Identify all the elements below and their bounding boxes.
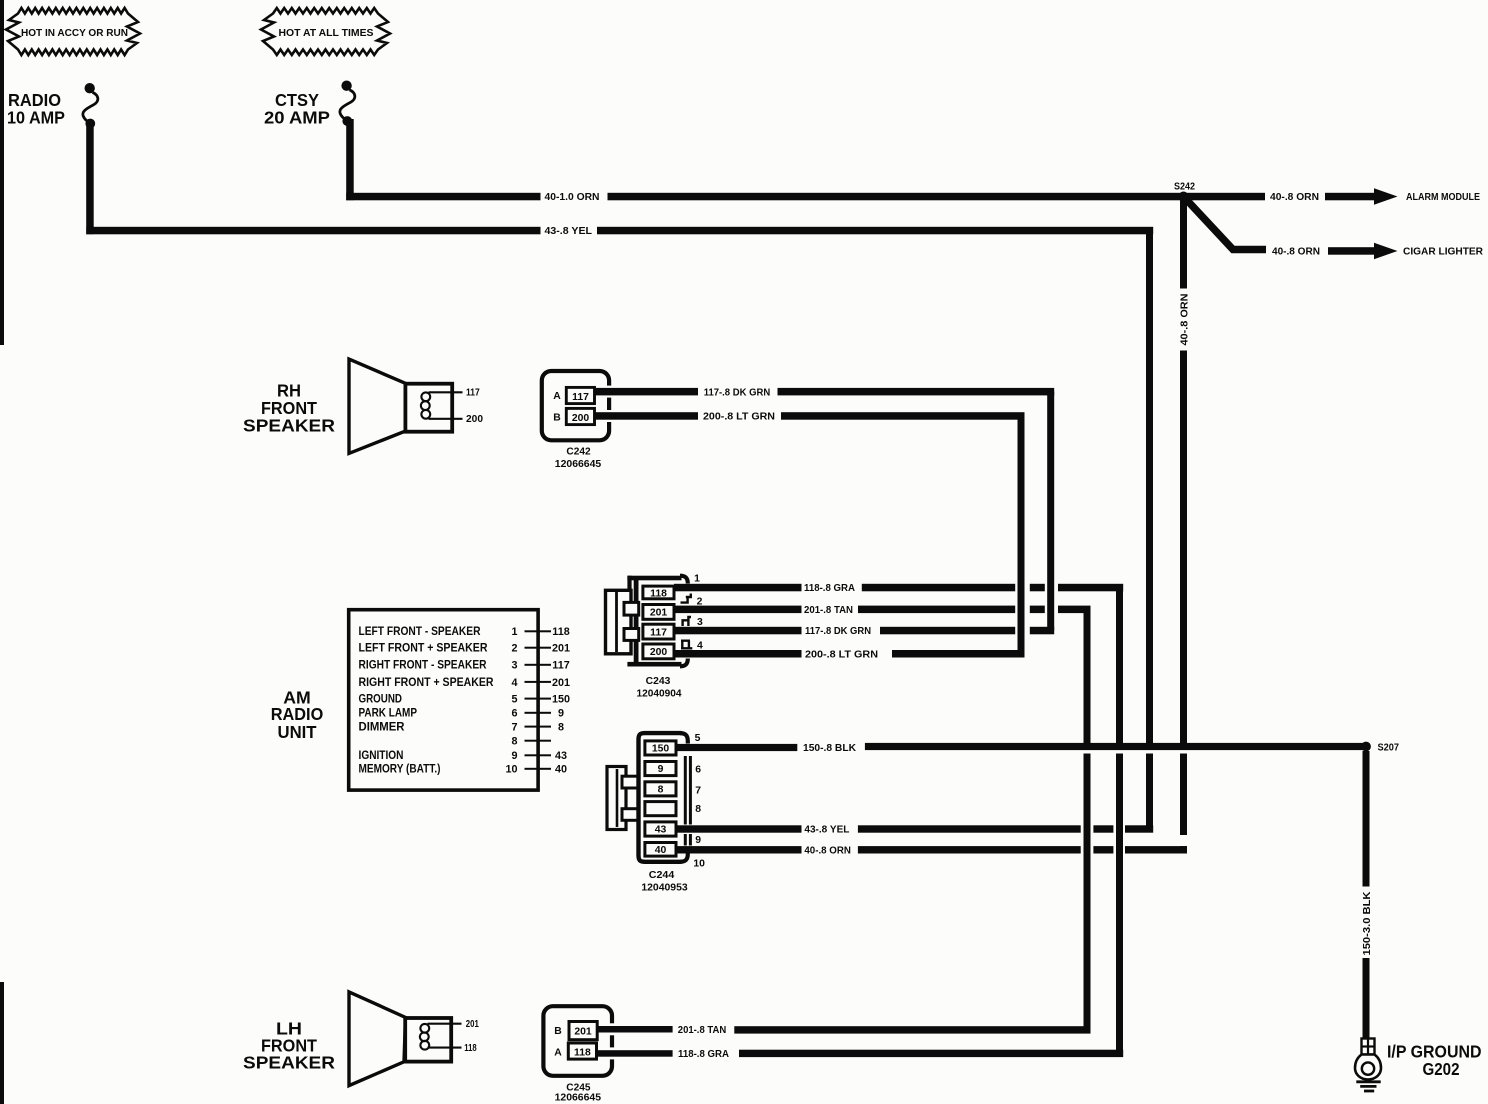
connector C244 pin 7 number [695,785,701,796]
svg-text:201-.8 TAN: 201-.8 TAN [804,605,853,616]
label C242 [566,446,590,457]
svg-text:6: 6 [511,708,517,720]
scan edge bar top-left [0,0,4,345]
label 43-.8 YEL top [545,226,593,237]
connector C244 cavity 43 [645,822,676,836]
svg-text:43-.8 YEL: 43-.8 YEL [804,825,850,836]
node S207 [1361,742,1399,754]
connector C243 housing [627,576,687,667]
connector C242 pin B cavity [566,408,594,424]
label 200-.8 LT GRN upper [703,412,775,423]
box AM radio unit [349,610,538,790]
svg-text:9: 9 [558,708,564,720]
svg-text:3: 3 [511,660,517,672]
AM radio pin 2 LEFT FRONT + SPEAKER [359,641,571,655]
wire 40 ORN bottom seg4 corner [1125,846,1187,853]
connector C245 pin A cavity [568,1043,596,1059]
wire 200-.8 LT GRN from C243 pin4 [674,650,802,658]
wire 201 TAN bottom seg2 [734,1026,1090,1033]
svg-text:150: 150 [552,694,570,706]
svg-text:7: 7 [511,722,517,734]
svg-text:43: 43 [555,750,567,762]
svg-text:C243: C243 [646,676,671,687]
label 40-.8 ORN alarm [1270,192,1319,203]
wire 200 LT GRN to corner [781,412,1025,420]
svg-text:3: 3 [697,617,703,628]
connector C243 pin 3 number [697,617,703,628]
AM radio pin 6 PARK LAMP [359,706,565,720]
wire 117 DK GRN to corner [778,388,1055,396]
label 117-.8 DK GRN upper [704,387,771,398]
connector C244 cavity blank [645,802,676,816]
label 118-.8 GRA [804,583,855,594]
label 40-.8 ORN rotated [1179,294,1190,346]
label 40-.8 ORN bottom [804,846,851,857]
svg-text:201: 201 [574,1027,592,1038]
wire 43-.8 YEL horizontal left segment [86,227,540,235]
connector C244 pin 9 number [695,835,701,846]
svg-text:10: 10 [693,858,705,869]
label 150-.8 BLK [803,743,856,754]
label 200-.8 LT GRN lower [805,650,878,661]
connector C244 cavity 8 [645,782,676,796]
speaker LH horn [349,992,406,1086]
svg-text:40-.8 ORN: 40-.8 ORN [1272,247,1320,258]
wire 40-.8 ORN from C244 pin10 [676,846,802,853]
svg-text:S242: S242 [1174,182,1195,193]
svg-text:150-3.0 BLK: 150-3.0 BLK [1362,892,1373,956]
wire 201 TAN seg4 corner [1058,606,1091,614]
svg-text:6: 6 [695,764,701,775]
wire 118 GRA vertical seg2 [1116,754,1123,1058]
connector C243 cavity 201 [643,605,674,620]
wire 201-.8 TAN from C243 pin2 [674,606,802,614]
arrow to CIGAR LIGHTER [1328,243,1398,259]
label I/P GROUND [1387,1041,1482,1061]
svg-text:DIMMER: DIMMER [359,720,405,734]
svg-text:2: 2 [511,643,517,655]
speaker RH pin lead 117 [429,391,463,393]
ground symbol G202 [1356,1082,1380,1091]
label LH FRONT SPEAKER [243,1019,335,1073]
fuse CTSY 20A symbol [340,81,355,126]
svg-text:SPEAKER: SPEAKER [243,1053,335,1073]
connector C242 pin B label [553,412,561,423]
wire 201 TAN seg3 [1030,606,1045,614]
callout HOT AT ALL TIMES [261,8,390,55]
speaker RH horn [349,359,408,453]
svg-text:8: 8 [511,736,517,748]
AM radio pin 10 MEMORY (BATT.) [359,762,568,776]
AM radio pin 5 GROUND [359,692,571,706]
svg-text:C244: C244 [649,870,675,881]
speaker LH pin label 201 [466,1019,479,1030]
svg-text:201: 201 [466,1019,479,1030]
svg-text:40: 40 [655,845,667,856]
svg-text:117: 117 [650,627,667,638]
label 12066645 C242 [555,459,602,470]
wire 118-.8 GRA from C243 pin1 [674,584,802,592]
connector C244 cavity 150 [645,741,676,755]
label RH FRONT SPEAKER [243,381,335,436]
svg-text:8: 8 [658,785,664,796]
arrow to ALARM MODULE [1325,188,1398,204]
ground ring terminal eyelet [1355,1055,1381,1080]
wire 118 GRA bottom seg2 [739,1050,1123,1057]
connector C244 cavity 40 [645,843,676,857]
svg-text:5: 5 [695,733,701,744]
connector C244 pin 8 number [695,804,701,815]
label 40-1.0 ORN [545,192,600,203]
label C243 [646,676,671,687]
connector C245 pin B cavity [569,1022,597,1040]
label 12066645 C245 [555,1092,602,1103]
connector C243 cavity 200 [643,644,674,659]
svg-text:40-.8 ORN: 40-.8 ORN [1179,294,1190,346]
fuse RADIO 10A symbol [83,83,98,128]
svg-text:118: 118 [552,626,569,638]
svg-text:PARK LAMP: PARK LAMP [359,706,418,720]
svg-text:B: B [553,412,561,423]
wire 150-3.0 BLK vertical seg1 [1363,751,1370,887]
wire 40-.8 ORN vertical seg3 [1180,754,1187,836]
wire 118 GRA seg3 [1030,584,1045,592]
wire 201 TAN vertical seg1 [1084,609,1091,743]
svg-text:201: 201 [552,643,570,655]
svg-text:12040904: 12040904 [637,688,682,699]
AM radio pin 7 DIMMER [359,720,565,734]
svg-text:12040953: 12040953 [641,882,688,893]
svg-text:7: 7 [695,785,701,796]
svg-text:118: 118 [464,1043,477,1054]
connector C244 cavity 9 [645,762,676,776]
connector C242 pin A cavity [566,387,594,403]
connector C243 cavity 118 [643,586,674,599]
wire 201 TAN vertical seg2 [1084,754,1091,1034]
connector C242 body [542,371,609,440]
connector C244 latch [607,767,638,830]
label 40-.8 ORN cigar [1272,247,1320,258]
svg-text:12066645: 12066645 [555,1092,602,1103]
speaker RH pin label 200 [466,414,483,425]
wire 43 YEL bottom seg2 [858,825,1081,832]
svg-text:40-1.0 ORN: 40-1.0 ORN [545,192,600,203]
connector C243 latch [606,590,639,654]
fuse CTSY 20 AMP label [264,90,330,128]
svg-text:117: 117 [552,660,569,672]
svg-text:150-.8 BLK: 150-.8 BLK [803,743,856,754]
svg-text:IGNITION: IGNITION [359,748,404,762]
wire 43-.8 YEL horizontal to corner [597,227,1153,235]
svg-text:200: 200 [572,413,590,424]
wire 40-.8 ORN to alarm label [1184,193,1266,201]
connector C243 pin 4 number [697,641,703,652]
svg-text:9: 9 [658,764,664,775]
wire 40-1.0 ORN vertical from CTSY fuse [346,119,354,200]
svg-text:5: 5 [511,694,517,706]
speaker LH pin lead 118 [428,1047,462,1049]
svg-text:A: A [554,1047,562,1058]
wire 40-.8 ORN vertical seg1 [1180,200,1187,289]
scan edge bar bottom-left [0,982,4,1104]
svg-text:HOT IN ACCY OR RUN: HOT IN ACCY OR RUN [21,28,128,39]
connector C243 cavity 117 [643,624,674,639]
wire 117-.8 DK GRN from C243 pin3 [674,627,802,635]
label C244 [649,870,675,881]
wire 43-.8 YEL vertical from RADIO fuse [86,121,94,234]
label 201-.8 TAN bottom [678,1025,726,1036]
speaker LH pin label 118 [464,1043,477,1054]
label 12040904 [637,688,682,699]
svg-text:SPEAKER: SPEAKER [243,416,335,436]
wire 117 DK GRN seg2 [880,627,1015,635]
wire 200 LT GRN from C242 [595,410,699,422]
svg-text:201: 201 [552,677,570,689]
connector C245 body [543,1006,612,1076]
wire 117 DK GRN seg3 [1030,627,1054,635]
connector C243 pin 2 number [697,596,703,607]
wire 40 ORN bottom seg3 [1093,846,1113,853]
svg-text:LEFT FRONT + SPEAKER: LEFT FRONT + SPEAKER [359,641,488,655]
svg-text:8: 8 [695,804,701,815]
svg-text:4: 4 [511,677,517,689]
speaker LH coil box [405,1018,451,1062]
svg-text:117: 117 [466,387,480,398]
svg-text:117-.8 DK GRN: 117-.8 DK GRN [704,387,771,398]
speaker LH coil [420,1024,429,1050]
wire 43 YEL bottom seg3 [1093,825,1113,832]
svg-text:UNIT: UNIT [278,722,317,742]
label C245 [566,1083,590,1094]
speaker RH coil [421,392,430,418]
svg-text:A: A [553,391,561,402]
svg-text:HOT AT ALL TIMES: HOT AT ALL TIMES [279,28,374,39]
svg-text:43: 43 [655,825,667,836]
wire 43 YEL vertical seg2 [1146,754,1153,826]
wire 150-.8 BLK from C244 pin5 [676,744,797,751]
svg-text:B: B [554,1026,562,1037]
svg-text:G202: G202 [1423,1059,1460,1079]
ground ring terminal crimp [1362,1039,1375,1055]
svg-text:40: 40 [555,764,567,776]
svg-text:118-.8 GRA: 118-.8 GRA [804,583,855,594]
label 43-.8 YEL bottom [804,825,850,836]
label ALARM MODULE [1406,192,1480,203]
wire 40-.8 ORN vertical seg2 [1180,351,1187,744]
svg-text:9: 9 [511,750,517,762]
label 201-.8 TAN [804,605,853,616]
wire 201 TAN seg2 [858,606,1015,614]
svg-text:118: 118 [650,589,667,600]
svg-text:40-.8 ORN: 40-.8 ORN [804,846,851,857]
fuse RADIO 10 AMP label [7,90,65,128]
wire 150-.8 BLK to S207 [865,743,1366,750]
svg-text:201-.8 TAN: 201-.8 TAN [678,1025,726,1036]
AM radio pin 3 RIGHT FRONT - SPEAKER [359,658,570,672]
svg-text:MEMORY (BATT.): MEMORY (BATT.) [359,762,441,776]
AM radio pin 4 RIGHT FRONT + SPEAKER [359,675,571,689]
AM radio pin 8 blank [511,736,551,748]
AM radio pin 1 LEFT FRONT - SPEAKER [359,624,570,638]
speaker RH pin label 117 [466,387,480,398]
connector C243 pin 2 terminal glyph [681,594,691,603]
connector C243 pin 3 terminal glyph [683,617,691,626]
connector C243 pin 1 number [694,574,700,585]
callout HOT IN ACCY OR RUN [6,8,140,55]
label 118-.8 GRA bottom [678,1049,729,1060]
connector C243 pin 4 terminal glyph [681,641,692,649]
wire 201-.8 TAN from C245 pinB [597,1023,672,1035]
wire 40-.8 ORN diagonal from S242 [1184,197,1267,250]
connector C245 pin B label [554,1026,562,1037]
svg-text:117-.8 DK GRN: 117-.8 DK GRN [805,626,871,637]
connector C245 pin A label [554,1047,562,1058]
speaker RH pin lead 200 [429,418,463,420]
speaker RH coil box [405,384,452,432]
svg-text:9: 9 [695,835,701,846]
svg-text:8: 8 [558,722,564,734]
svg-text:118-.8 GRA: 118-.8 GRA [678,1049,729,1060]
svg-text:RIGHT FRONT + SPEAKER: RIGHT FRONT + SPEAKER [359,675,494,689]
speaker LH pin lead 201 [428,1023,462,1025]
svg-text:10: 10 [505,764,517,776]
wire 40-1.0 ORN horizontal left segment [346,193,540,201]
connector C242 pin A label [553,391,561,402]
wire 43-.8 YEL from C244 pin9 [676,825,802,832]
wire 200 LT GRN vertical v1 [1018,416,1025,654]
svg-text:150: 150 [652,744,670,755]
connector C244 housing [639,733,692,862]
wire 200 LT GRN seg2 [892,650,1025,658]
svg-text:1: 1 [694,574,700,585]
svg-text:10 AMP: 10 AMP [7,108,65,128]
svg-text:12066645: 12066645 [555,459,602,470]
wire 40-1.0 ORN horizontal right segment to S242 [608,193,1184,201]
wire 118 GRA seg4 corner [1058,584,1123,592]
svg-text:40-.8 ORN: 40-.8 ORN [1270,192,1319,203]
svg-text:1: 1 [511,626,517,638]
wire 43 YEL bottom seg4 corner [1125,825,1153,832]
svg-text:118: 118 [574,1047,591,1058]
AM radio pin 9 IGNITION [359,748,568,762]
label 150-3.0 BLK rotated [1362,892,1373,956]
svg-text:S207: S207 [1378,742,1400,753]
wire 43 YEL vertical seg1 [1146,227,1153,743]
label AM RADIO UNIT [271,688,324,742]
svg-text:20 AMP: 20 AMP [264,108,330,128]
label G202 [1423,1059,1460,1079]
svg-text:201: 201 [650,608,668,619]
connector C244 pin 5 number [695,733,701,744]
wire 118 GRA seg2 [862,584,1015,592]
svg-text:ALARM MODULE: ALARM MODULE [1406,192,1480,203]
wire 40 ORN bottom seg2 [858,846,1081,853]
svg-text:CIGAR LIGHTER: CIGAR LIGHTER [1403,247,1483,258]
connector C244 pin 6 number [695,764,701,775]
svg-text:GROUND: GROUND [359,692,403,706]
svg-text:200-.8 LT GRN: 200-.8 LT GRN [703,412,775,423]
svg-text:200: 200 [650,647,668,658]
wire 150-3.0 BLK vertical seg2 [1363,958,1370,1038]
label 117-.8 DK GRN lower [805,626,871,637]
connector C244 pin 10 number [693,858,705,869]
wire 117 DK GRN from C242 [595,386,699,398]
wire 118 GRA vertical seg1 [1116,588,1123,744]
wire 118-.8 GRA from C245 pinA [597,1047,673,1059]
svg-text:C242: C242 [566,446,590,457]
svg-text:200-.8 LT GRN: 200-.8 LT GRN [805,650,878,661]
node S242 [1174,182,1195,202]
svg-text:43-.8 YEL: 43-.8 YEL [545,226,593,237]
label 12040953 [641,882,688,893]
label CIGAR LIGHTER [1403,247,1483,258]
svg-text:RIGHT FRONT - SPEAKER: RIGHT FRONT - SPEAKER [359,658,487,672]
wire 117 DK GRN vertical v2 [1047,392,1054,631]
svg-text:LEFT FRONT - SPEAKER: LEFT FRONT - SPEAKER [359,624,481,638]
svg-text:117: 117 [572,392,589,403]
svg-text:200: 200 [466,414,483,425]
